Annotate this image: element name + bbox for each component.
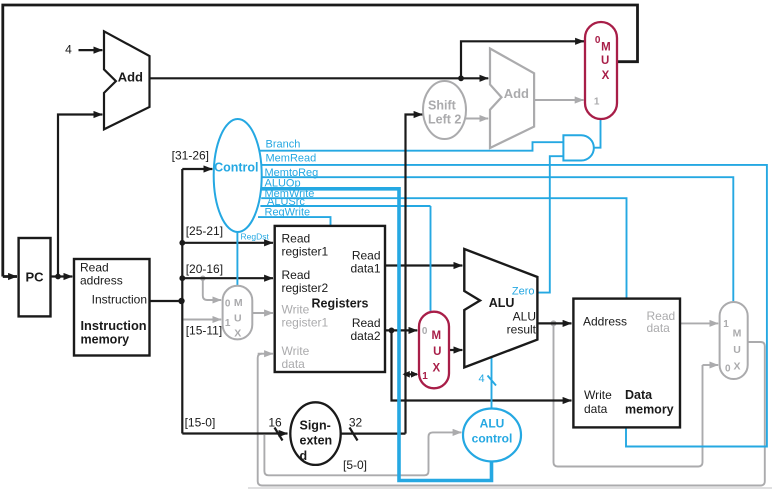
- svg-text:data: data: [647, 321, 671, 335]
- svg-text:32: 32: [349, 415, 363, 429]
- svg-text:X: X: [602, 70, 610, 82]
- svg-text:0: 0: [422, 326, 428, 337]
- svg-text:register2: register2: [282, 281, 329, 295]
- svg-text:1: 1: [422, 371, 428, 382]
- svg-text:U: U: [601, 55, 609, 67]
- svg-text:RegWrite: RegWrite: [265, 207, 311, 219]
- svg-text:d: d: [300, 449, 308, 463]
- svg-text:0: 0: [725, 364, 731, 375]
- svg-text:[31-26]: [31-26]: [172, 148, 209, 162]
- svg-text:[15-0]: [15-0]: [185, 415, 216, 429]
- svg-text:M: M: [733, 328, 742, 340]
- svg-text:M: M: [601, 42, 611, 54]
- svg-text:M: M: [234, 297, 243, 309]
- svg-text:U: U: [733, 344, 741, 356]
- svg-text:Instruction: Instruction: [81, 318, 147, 333]
- svg-text:memory: memory: [81, 332, 130, 346]
- svg-text:4: 4: [65, 43, 72, 57]
- svg-text:1: 1: [225, 318, 231, 329]
- svg-text:Instruction: Instruction: [92, 293, 147, 307]
- svg-text:register1: register1: [282, 316, 329, 330]
- svg-text:X: X: [733, 361, 740, 373]
- svg-text:M: M: [432, 330, 442, 342]
- svg-text:PC: PC: [25, 270, 44, 285]
- svg-text:0: 0: [595, 35, 601, 46]
- svg-text:data1: data1: [350, 261, 380, 275]
- svg-text:U: U: [433, 346, 441, 358]
- svg-text:exten: exten: [300, 434, 333, 448]
- svg-text:RegDst: RegDst: [241, 232, 270, 242]
- svg-text:[15-11]: [15-11]: [186, 324, 222, 338]
- svg-text:control: control: [472, 432, 513, 446]
- svg-text:Write: Write: [584, 388, 612, 402]
- svg-text:Left 2: Left 2: [428, 113, 461, 127]
- svg-text:Registers: Registers: [312, 296, 369, 310]
- svg-text:U: U: [234, 313, 242, 325]
- svg-text:0: 0: [225, 299, 231, 310]
- svg-text:X: X: [234, 328, 241, 340]
- svg-text:Sign-: Sign-: [300, 418, 331, 432]
- svg-text:1: 1: [594, 96, 600, 107]
- svg-text:Write: Write: [282, 303, 310, 317]
- svg-text:address: address: [80, 274, 123, 288]
- svg-text:ALU: ALU: [489, 296, 515, 310]
- svg-text:4: 4: [478, 373, 484, 385]
- svg-text:Read: Read: [282, 232, 311, 246]
- svg-text:data2: data2: [350, 329, 380, 343]
- svg-text:Read: Read: [282, 268, 311, 282]
- svg-text:[20-16]: [20-16]: [186, 262, 223, 276]
- svg-text:data: data: [282, 357, 306, 371]
- svg-text:Data: Data: [625, 388, 653, 402]
- svg-text:Address: Address: [583, 315, 627, 329]
- svg-text:result: result: [507, 323, 537, 337]
- svg-text:Write: Write: [282, 344, 310, 358]
- svg-text:memory: memory: [625, 402, 674, 416]
- svg-text:register1: register1: [282, 245, 329, 259]
- svg-text:X: X: [432, 363, 440, 375]
- svg-text:MemRead: MemRead: [266, 153, 317, 165]
- svg-text:Branch: Branch: [266, 139, 301, 151]
- svg-text:ALU: ALU: [513, 310, 536, 324]
- svg-text:ALU: ALU: [480, 417, 505, 431]
- svg-text:Shift: Shift: [428, 99, 457, 113]
- svg-text:16: 16: [268, 415, 282, 429]
- svg-text:Control: Control: [214, 160, 258, 174]
- svg-text:[25-21]: [25-21]: [186, 224, 223, 238]
- svg-text:Read: Read: [80, 261, 109, 275]
- svg-text:data: data: [584, 402, 608, 416]
- svg-text:Add: Add: [118, 70, 143, 85]
- svg-text:1: 1: [723, 319, 729, 330]
- svg-text:[5-0]: [5-0]: [343, 458, 367, 472]
- svg-text:Add: Add: [504, 86, 529, 101]
- svg-text:Zero: Zero: [512, 286, 535, 298]
